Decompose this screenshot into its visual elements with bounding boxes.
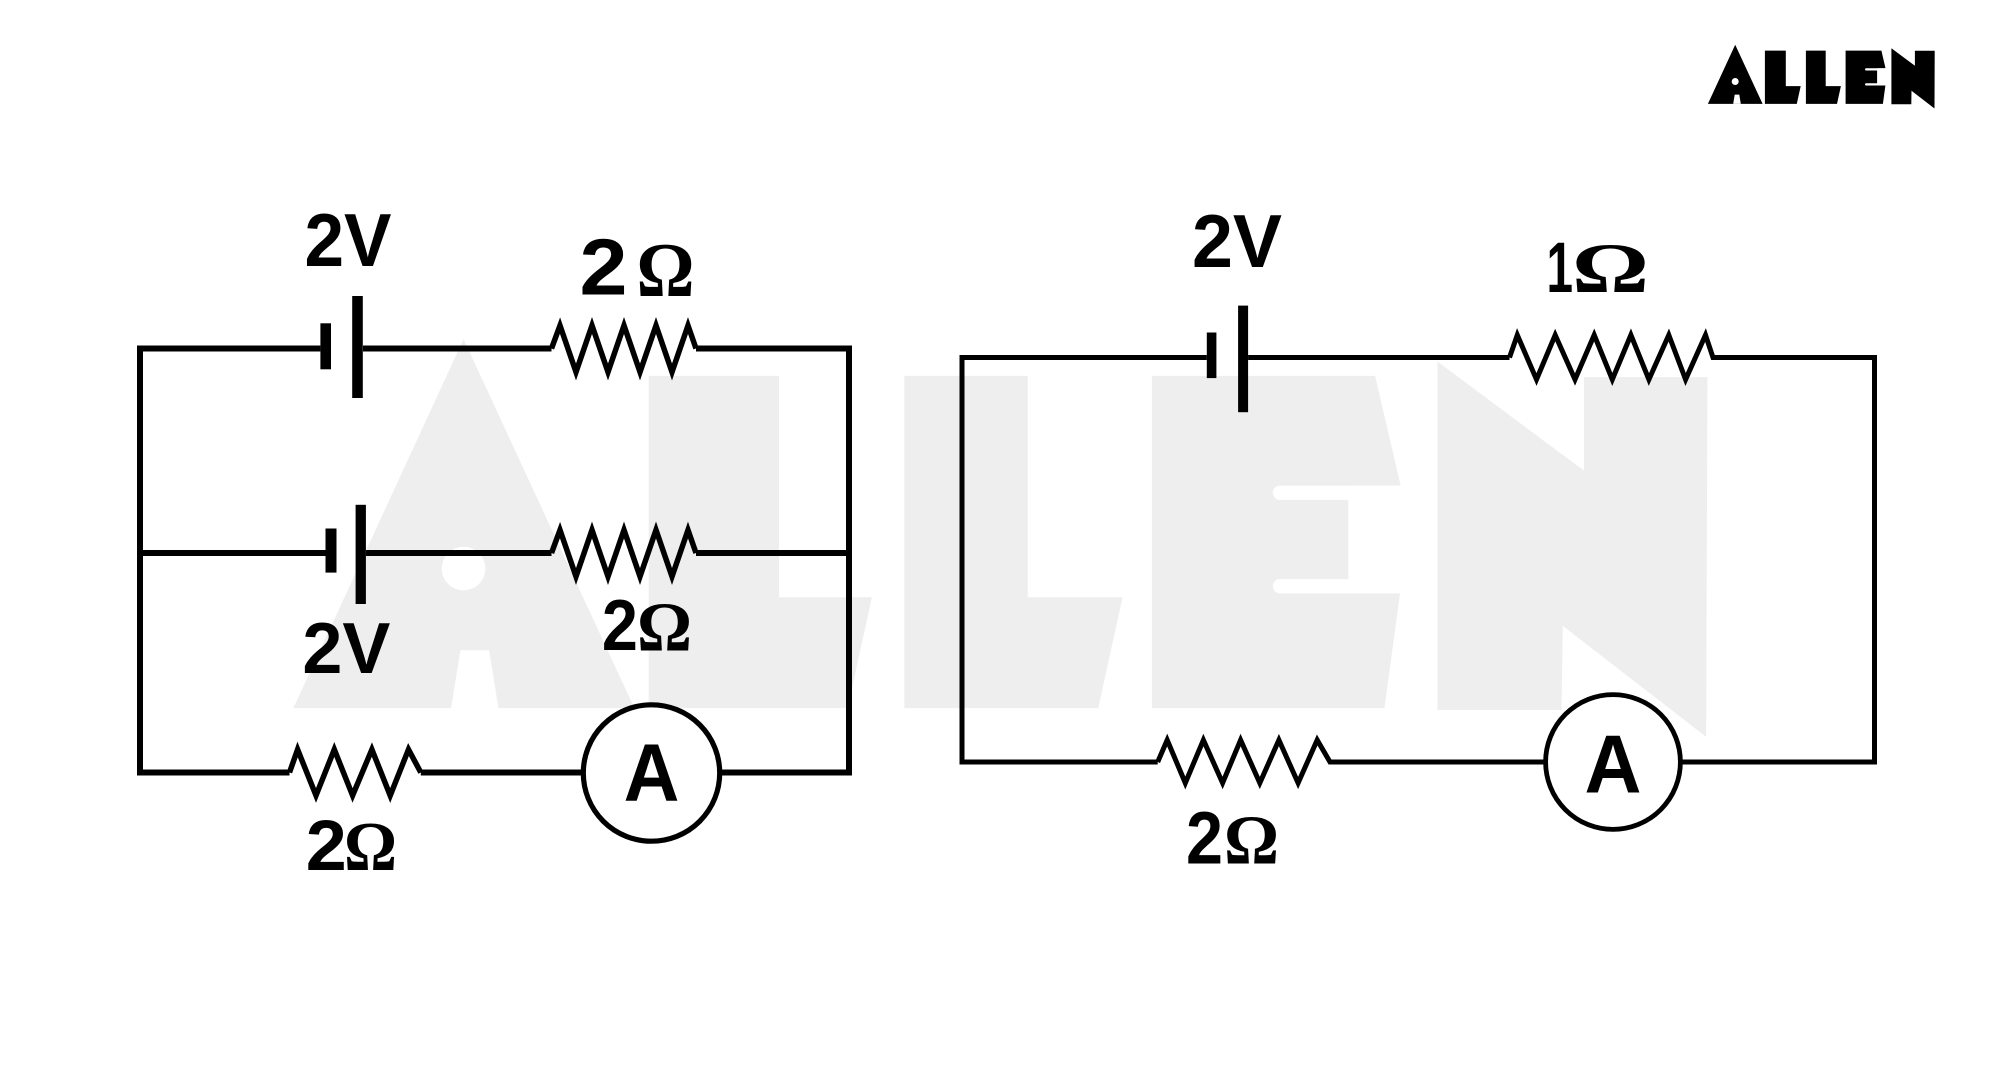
svg-text:2Ω: 2Ω	[602, 586, 692, 667]
svg-text:2V: 2V	[305, 198, 392, 282]
svg-text:1Ω: 1Ω	[1547, 229, 1650, 308]
svg-text:2V: 2V	[1192, 199, 1282, 283]
svg-text:2Ω: 2Ω	[580, 223, 695, 313]
svg-text:2Ω: 2Ω	[306, 807, 397, 886]
svg-text:A: A	[1585, 717, 1642, 810]
svg-text:2V: 2V	[302, 609, 390, 689]
svg-text:A: A	[624, 728, 680, 819]
svg-text:2Ω: 2Ω	[1186, 796, 1279, 879]
